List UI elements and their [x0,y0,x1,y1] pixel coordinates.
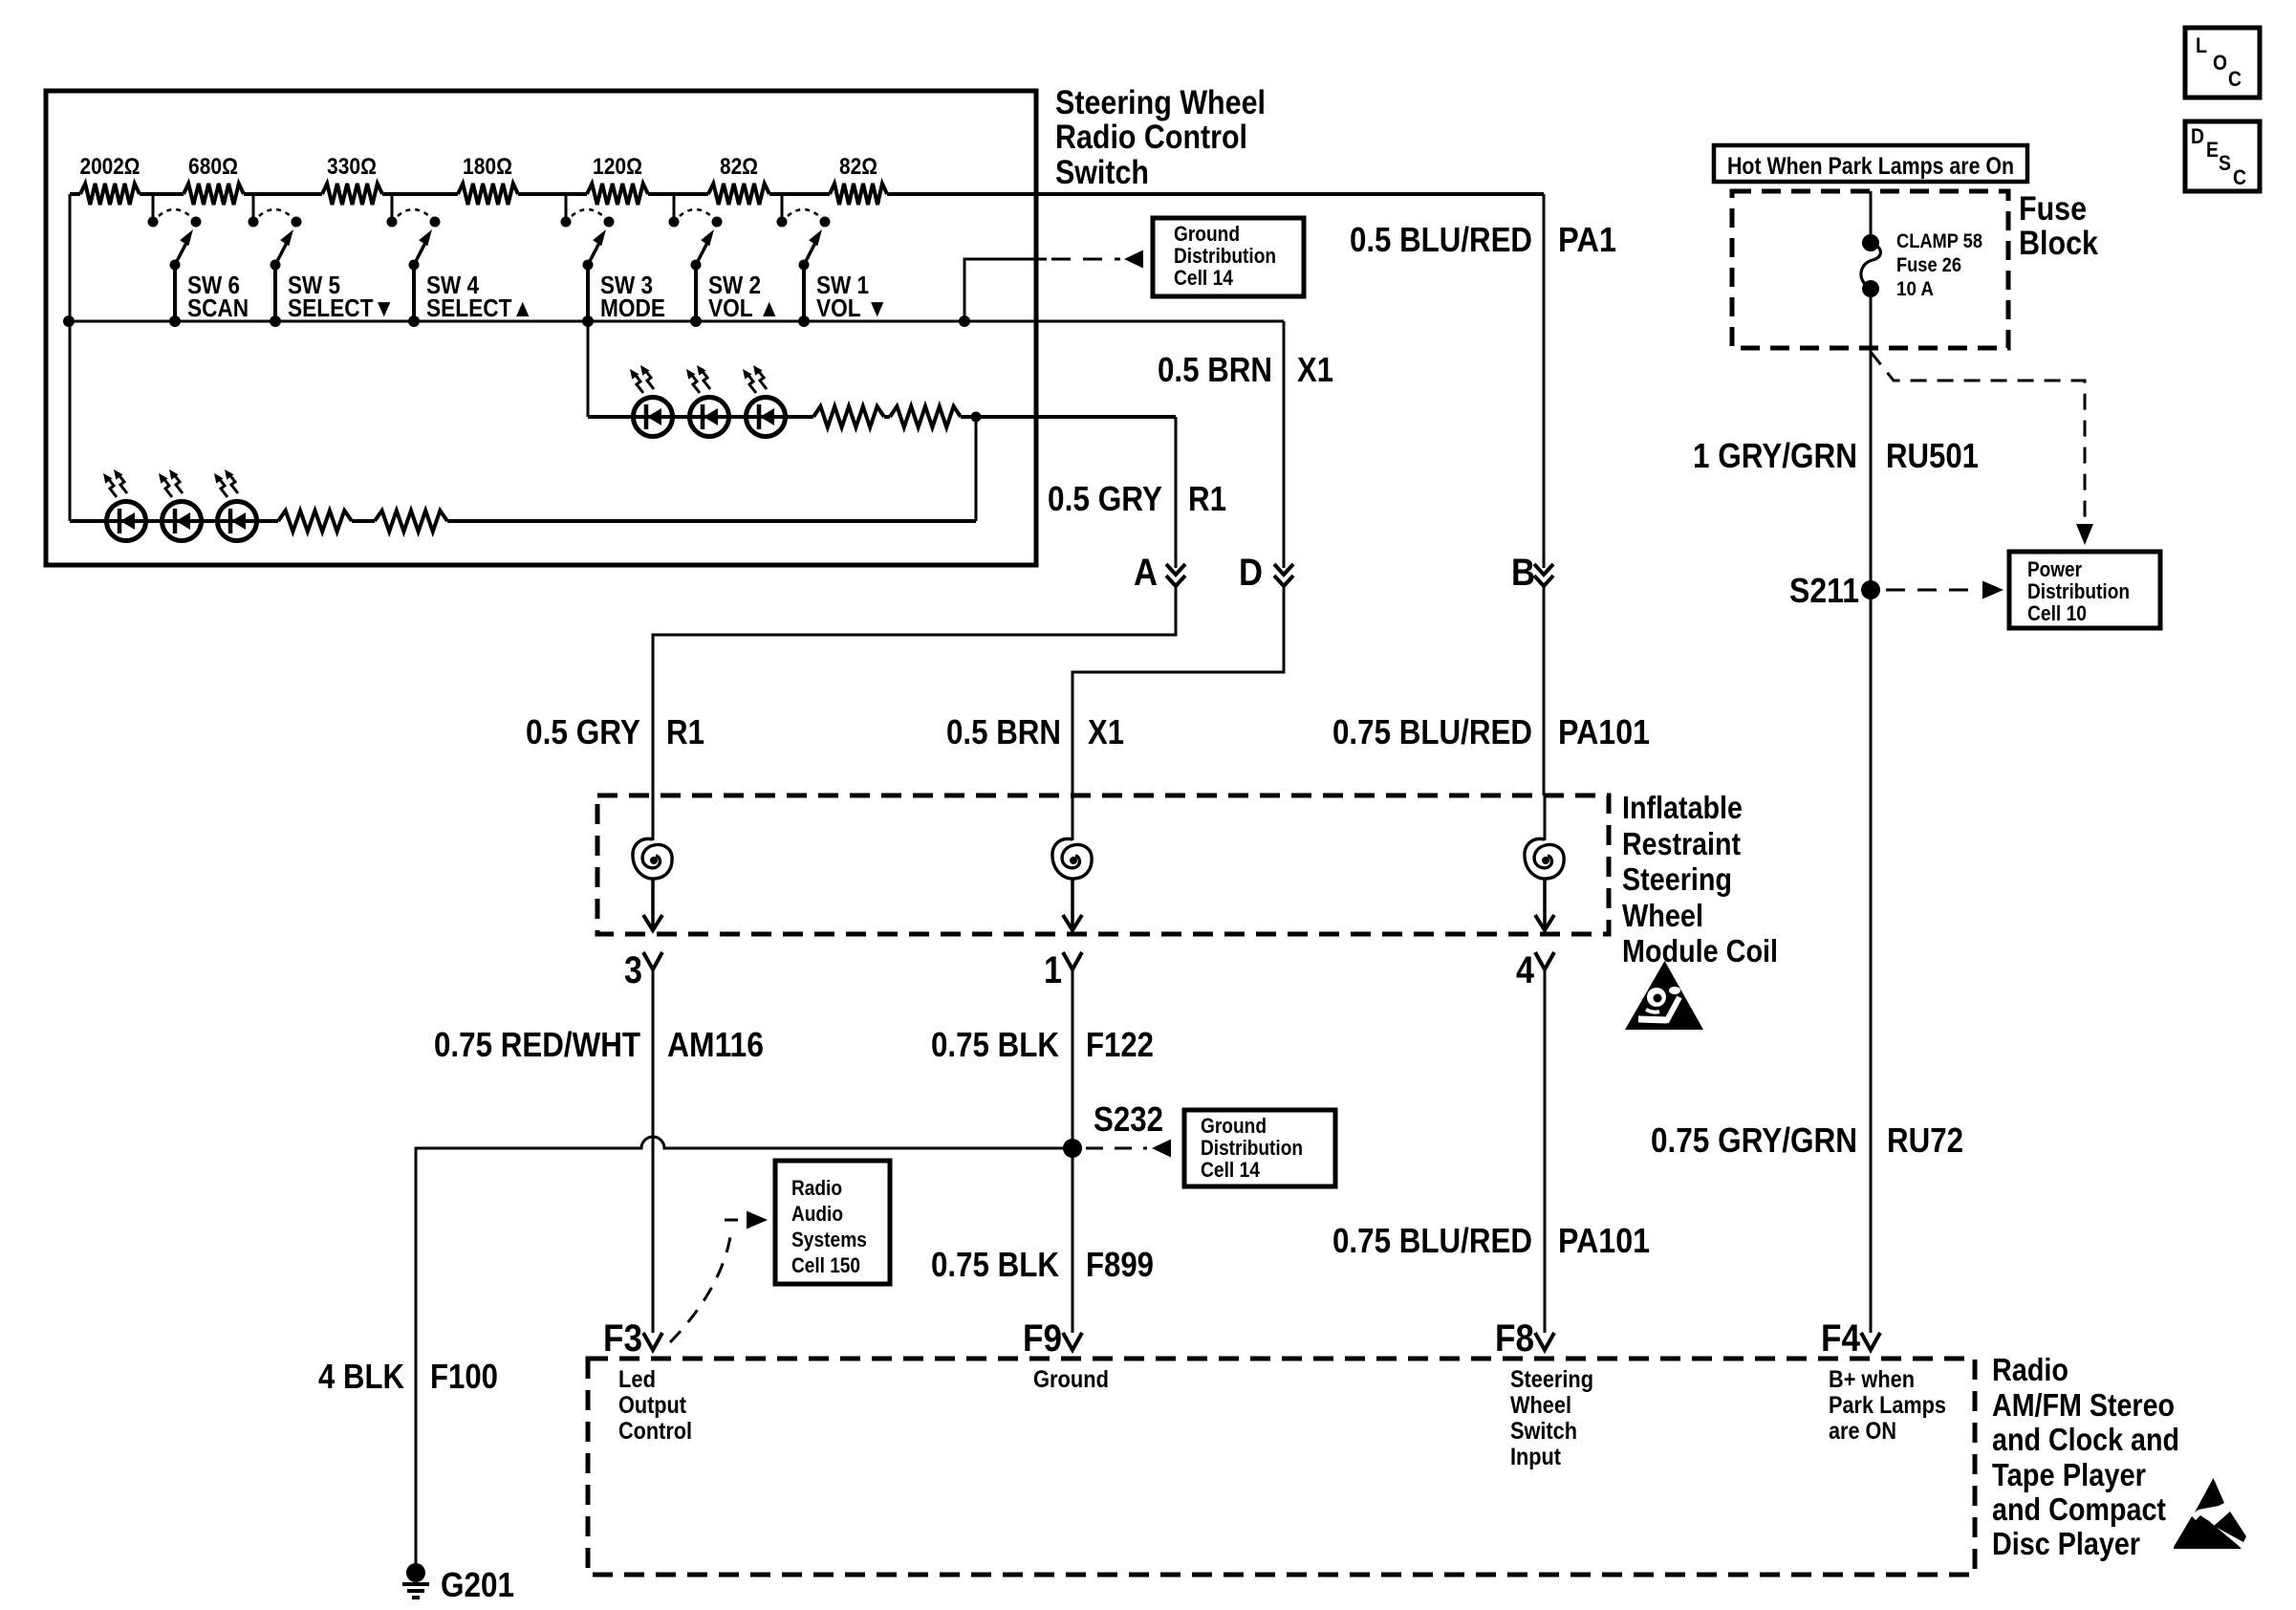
svg-text:CLAMP 58: CLAMP 58 [1896,230,1982,252]
svg-text:Cell 10: Cell 10 [2027,601,2087,625]
svg-text:4: 4 [1516,949,1535,991]
svg-text:Ground: Ground [1174,222,1240,246]
svg-text:Distribution: Distribution [2027,579,2130,603]
svg-text:680Ω: 680Ω [188,154,238,180]
dashed ref jog to power distribution [1871,352,2085,532]
LED D6 lower row [218,502,257,541]
svg-text:0.75 BLK: 0.75 BLK [931,1025,1059,1064]
svg-text:F3: F3 [603,1317,642,1360]
wire: bus corner down to D [1283,321,1286,568]
svg-text:Input: Input [1510,1444,1562,1470]
LED D4 lower row [107,502,146,541]
wire: into fuse [1870,191,1873,243]
switch SW 2 VOL ▲ [673,194,676,218]
svg-text:4 BLK: 4 BLK [318,1357,404,1396]
wire: D jog to column 1 [1072,586,1284,795]
svg-text:0.75 BLU/RED: 0.75 BLU/RED [1332,1221,1532,1260]
box: inflatable restraint steering wheel module coil (dashed) [597,795,1609,934]
wire: LED row2 interconnect [145,519,162,523]
box: radio AM/FM dashed [588,1359,1975,1575]
wire: switch common bus [69,320,1284,323]
box: Ground Distribution Cell 14 (upper) [1153,218,1304,296]
svg-text:Tape Player: Tape Player [1992,1457,2146,1492]
fuse F26 element [1861,243,1880,288]
svg-text:RU72: RU72 [1887,1120,1963,1160]
svg-text:Radio Control: Radio Control [1055,119,1247,156]
LED D5 lower row [162,502,202,541]
splice S232 [1063,1139,1082,1158]
svg-text:120Ω: 120Ω [593,154,642,180]
wire: between R10 R11 [352,519,375,523]
svg-text:0.5 BRN: 0.5 BRN [946,712,1061,751]
coil winding at column 3 [652,795,655,840]
wire: LED node to A drop [1175,417,1178,568]
svg-text:Wheel: Wheel [1622,898,1703,933]
svg-text:F122: F122 [1086,1025,1154,1064]
resistor R7 82 ohm [830,184,887,205]
dashed ref curve F3 to radio audio systems [670,1231,731,1342]
svg-text:Output: Output [618,1392,687,1419]
LED D3 upper row [747,398,786,437]
svg-text:F899: F899 [1086,1245,1154,1284]
svg-text:S232: S232 [1094,1099,1163,1139]
svg-text:3: 3 [624,949,642,991]
splice S211 [1861,580,1880,599]
svg-text:Fuse: Fuse [2019,190,2087,228]
svg-text:Module Coil: Module Coil [1622,933,1778,968]
wire: pin3 down to F3 [652,969,655,1333]
svg-text:Power: Power [2027,557,2082,581]
resistor R9 upper LED row [890,406,961,427]
dashed ref arrow S232 to ground distribution [1086,1147,1147,1150]
fuse F26 top terminal [1862,234,1879,251]
symbol: airbag warning triangle [1625,961,1703,1030]
svg-text:0.75 BLK: 0.75 BLK [931,1245,1059,1284]
svg-text:Block: Block [2019,225,2098,262]
svg-text:2002Ω: 2002Ω [80,154,141,180]
svg-text:B: B [1511,552,1535,594]
svg-text:Ground: Ground [1033,1366,1109,1393]
svg-text:Distribution: Distribution [1174,244,1276,268]
svg-text:SELECT▲: SELECT▲ [426,294,533,322]
svg-text:S211: S211 [1789,571,1859,610]
wire: LED row1 to node [961,415,1176,419]
svg-text:X1: X1 [1297,350,1333,389]
svg-text:1 GRY/GRN: 1 GRY/GRN [1693,436,1857,475]
wire: between R8 R9 [884,415,890,419]
svg-text:82Ω: 82Ω [720,154,758,180]
svg-text:Distribution: Distribution [1201,1136,1303,1160]
svg-text:F100: F100 [430,1357,498,1396]
wire: B to coil [1543,586,1546,795]
wire: node down to LED row 2 [975,417,978,521]
svg-text:180Ω: 180Ω [463,154,512,180]
symbol: ESD warning triangle [2195,1478,2224,1512]
svg-text:PA1: PA1 [1558,220,1616,259]
svg-text:O: O [2213,51,2227,75]
svg-text:VOL ▼: VOL ▼ [816,294,888,322]
resistor R10 lower LED row [278,511,352,532]
dashed ref arrow to ground distribution cell 14 [1051,258,1120,261]
resistor R2 680 ohm [184,184,244,205]
switch SW 5 SELECT▼ [252,194,255,218]
svg-text:0.5 BRN: 0.5 BRN [1158,350,1272,389]
svg-text:0.75 BLU/RED: 0.75 BLU/RED [1332,712,1532,751]
svg-text:AM/FM Stereo: AM/FM Stereo [1992,1387,2175,1423]
svg-text:are ON: are ON [1829,1418,1896,1445]
wire: S211 down to F4 [1870,590,1873,1333]
switch SW 1 VOL ▼ [781,194,784,218]
svg-text:Control: Control [618,1418,692,1445]
svg-text:Cell 14: Cell 14 [1201,1158,1261,1182]
svg-text:Switch: Switch [1055,154,1149,191]
svg-text:0.5 BLU/RED: 0.5 BLU/RED [1350,220,1532,259]
svg-text:G201: G201 [441,1565,514,1604]
switch SW 6 SCAN [152,194,155,218]
svg-text:Audio: Audio [791,1202,843,1226]
svg-text:Led: Led [618,1366,656,1393]
svg-text:F8: F8 [1495,1317,1534,1360]
svg-text:Radio: Radio [791,1176,842,1200]
svg-text:Steering: Steering [1622,861,1732,897]
svg-text:10 A: 10 A [1896,278,1934,300]
wire: LED row2 start [70,519,107,523]
svg-text:L: L [2196,33,2207,57]
svg-text:Restraint: Restraint [1622,826,1741,861]
svg-text:MODE: MODE [600,294,665,322]
svg-text:Ground: Ground [1201,1114,1267,1138]
svg-text:R1: R1 [1188,479,1226,518]
svg-text:AM116: AM116 [667,1025,764,1064]
svg-text:D: D [2191,124,2204,148]
wire: A jog to column 3 [653,586,1176,795]
svg-text:Disc Player: Disc Player [1992,1526,2140,1561]
LED D1 upper row [634,398,673,437]
svg-text:RU501: RU501 [1886,436,1979,475]
dashed ref arrow S211 to power distribution [1886,589,1975,592]
svg-text:PA101: PA101 [1558,712,1650,751]
svg-text:C: C [2228,67,2242,91]
svg-text:X1: X1 [1088,712,1124,751]
wire: S232 down to F9 [1072,1148,1074,1333]
resistor R5 120 ohm [587,184,648,205]
resistor R11 lower LED row [375,511,447,532]
wire: pin1 down to S232 [1072,969,1074,1148]
svg-text:82Ω: 82Ω [839,154,877,180]
resistor R6 82 ohm [708,184,769,205]
wire: pin4 down to F8 [1544,969,1547,1333]
wire: S232 to ground run with hop over column3 [416,1137,1072,1571]
box: LOC [2185,28,2260,98]
svg-text:R1: R1 [666,712,704,751]
fuse F26 bottom terminal [1862,280,1879,297]
resistor R8 upper LED row [813,406,884,427]
resistor R4 180 ohm [458,184,518,205]
svg-text:0.75 RED/WHT: 0.75 RED/WHT [434,1025,640,1064]
wire: LED row1 interconnect [672,415,690,419]
box: DESC [2185,121,2260,191]
box: Ground Distribution Cell 14 (lower) [1184,1110,1335,1186]
box: Power Distribution Cell 10 [2009,552,2160,628]
svg-text:Switch: Switch [1510,1418,1577,1445]
box: fuse block dashed [1732,191,2008,348]
wire: fuse to S211 [1870,289,1873,590]
svg-text:Cell 14: Cell 14 [1174,266,1234,290]
svg-text:F9: F9 [1023,1317,1062,1360]
junction: LED rows node [971,412,982,423]
resistor R1 2002 ohm [80,184,140,205]
svg-text:Steering Wheel: Steering Wheel [1055,84,1266,121]
coil winding at column 1 [1072,795,1074,840]
svg-text:0.5 GRY: 0.5 GRY [1048,479,1162,518]
svg-text:A: A [1134,552,1158,594]
svg-text:330Ω: 330Ω [327,154,377,180]
wire: bus tap up to dashed ref [964,259,1047,321]
svg-text:SCAN: SCAN [187,294,249,322]
switch SW 4 SELECT▲ [391,194,394,218]
svg-text:0.75 GRY/GRN: 0.75 GRY/GRN [1651,1120,1857,1160]
ground G201 [406,1563,425,1582]
svg-text:VOL ▲: VOL ▲ [708,294,780,322]
svg-text:Hot When Park Lamps are On: Hot When Park Lamps are On [1727,153,2014,180]
svg-text:1: 1 [1044,949,1062,991]
LED D2 upper row [690,398,729,437]
svg-text:D: D [1239,552,1263,594]
wire: SW3 stem to LED row 1 [587,321,590,417]
svg-text:F4: F4 [1821,1317,1861,1360]
svg-text:Park Lamps: Park Lamps [1829,1392,1946,1419]
svg-text:PA101: PA101 [1558,1221,1650,1260]
svg-text:Systems: Systems [791,1228,867,1251]
svg-text:SELECT▼: SELECT▼ [288,294,395,322]
junction: bus tap for ground distribution ref [959,315,970,327]
wire: resistor chain horizontal segments [70,192,80,196]
svg-text:S: S [2219,151,2231,175]
svg-text:E: E [2206,138,2219,162]
wire: LED row2 to node [447,519,976,523]
coil winding at column 4 [1544,795,1547,840]
svg-text:Steering: Steering [1510,1366,1593,1393]
svg-text:0.5 GRY: 0.5 GRY [526,712,640,751]
svg-text:Wheel: Wheel [1510,1392,1571,1419]
box: Hot When Park Lamps are On [1714,145,2027,182]
resistor R3 330 ohm [322,184,382,205]
svg-text:C: C [2233,165,2246,189]
steering wheel radio control switch outer box [46,91,1036,565]
svg-text:Fuse 26: Fuse 26 [1896,254,1961,276]
svg-text:and Clock and: and Clock and [1992,1422,2179,1457]
box: Radio Audio Systems Cell 150 [775,1161,890,1284]
switch SW 3 MODE [565,194,568,218]
svg-text:Radio: Radio [1992,1352,2069,1387]
svg-text:Inflatable: Inflatable [1622,790,1743,825]
wire: left vertical of switch box [69,194,72,521]
svg-text:Cell 150: Cell 150 [791,1253,860,1277]
svg-text:and Compact: and Compact [1992,1491,2166,1527]
wire: chain exit to B drop [1543,194,1546,568]
svg-text:B+ when: B+ when [1829,1366,1915,1393]
junction: bus left corner [63,315,75,327]
